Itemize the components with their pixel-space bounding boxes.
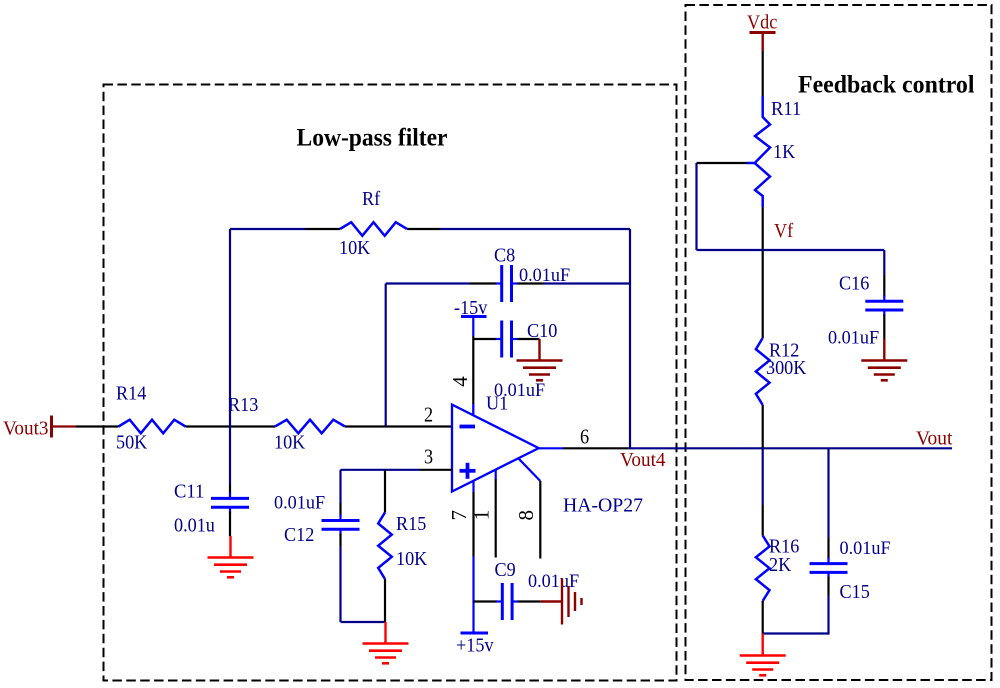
- wire C12 column upper: [339, 470, 341, 503]
- svg-text:0.01uF: 0.01uF: [828, 328, 879, 349]
- wire -15v stub: [472, 317, 474, 337]
- wire C8 right lead: [518, 282, 545, 284]
- svg-text:C9: C9: [495, 559, 516, 581]
- svg-text:R15: R15: [396, 513, 426, 535]
- wire R12 bottom lead: [762, 405, 764, 448]
- wire Vf horizontal: [697, 249, 885, 251]
- svg-text:C8: C8: [494, 245, 515, 267]
- wire pin7 lead: [472, 492, 474, 557]
- svg-text:Vdc: Vdc: [747, 12, 777, 34]
- resistor R15: [378, 512, 392, 579]
- resistor R14: [119, 420, 186, 434]
- capacitor C15: [810, 562, 848, 565]
- svg-text:Vf: Vf: [774, 220, 794, 242]
- wire R16 upper: [762, 448, 764, 505]
- wire R12 top lead: [762, 250, 764, 338]
- wire C16 ground stub: [883, 339, 885, 361]
- power Vdc bar: [750, 31, 776, 34]
- capacitor C10: [500, 321, 503, 358]
- svg-text:C11: C11: [174, 481, 204, 503]
- wire C15 upper: [827, 448, 829, 538]
- port Vout3 bar: [50, 416, 53, 438]
- svg-text:Low-pass filter: Low-pass filter: [297, 125, 448, 152]
- svg-text:Vout3: Vout3: [3, 418, 49, 440]
- wire C12 column lower: [339, 546, 341, 622]
- wire C8 left lead: [470, 282, 496, 284]
- wire C15 lower: [827, 596, 829, 635]
- capacitor C16: [865, 300, 903, 303]
- op-amp plus symbol: [460, 469, 476, 473]
- svg-text:3: 3: [424, 445, 433, 469]
- wire Rf right lead: [407, 228, 440, 230]
- wire C12 bottom lead: [339, 534, 341, 546]
- wire R16 top lead: [762, 505, 764, 536]
- wire C8 to node B: [544, 282, 630, 284]
- resistor Rf: [340, 222, 407, 236]
- wire C16 upper: [883, 250, 885, 275]
- svg-text:C15: C15: [840, 581, 870, 603]
- svg-text:Vout: Vout: [916, 428, 953, 450]
- wire C15 bottom lead: [827, 577, 829, 596]
- wire bottom horizontal to R15: [341, 621, 386, 623]
- svg-text:2K: 2K: [769, 554, 792, 576]
- svg-text:HA-OP27: HA-OP27: [563, 495, 643, 517]
- svg-text:2: 2: [424, 403, 433, 427]
- wire R15 ground stub: [384, 622, 386, 644]
- svg-text:R11: R11: [771, 98, 801, 120]
- op-amp U1 triangle: [452, 405, 539, 492]
- wire C12 top lead: [339, 503, 341, 516]
- capacitor C8: [500, 265, 503, 302]
- wire pin8 diagonal: [519, 459, 541, 481]
- wire R16 ground stub: [762, 634, 764, 656]
- svg-text:1: 1: [470, 510, 494, 521]
- wire pin7 to +15v: [472, 557, 474, 634]
- svg-text:-15v: -15v: [454, 297, 487, 319]
- wire R13 to pin2: [345, 425, 452, 427]
- wire Vdc to R11: [762, 51, 764, 96]
- wire node B vertical: [629, 229, 631, 448]
- power +15v bar: [461, 632, 489, 635]
- wire C11 ground stub: [229, 536, 231, 558]
- wire pin3 lead: [420, 469, 452, 471]
- wire bottom horizontal R16-C15: [763, 632, 829, 634]
- svg-text:50K: 50K: [116, 432, 148, 454]
- op-amp minus symbol: [460, 425, 476, 429]
- ground below R15: [363, 642, 409, 645]
- svg-text:0.01u: 0.01u: [174, 515, 215, 537]
- wire C9 ground stub: [541, 600, 561, 602]
- svg-text:8: 8: [514, 510, 538, 521]
- svg-text:R13: R13: [228, 394, 258, 416]
- svg-text:Vout4: Vout4: [620, 449, 666, 471]
- svg-text:10K: 10K: [396, 548, 428, 570]
- wire pin1 stub blue: [495, 470, 497, 479]
- feedback control section box: [686, 5, 992, 680]
- wire C10 ground stub: [538, 339, 540, 361]
- wire Rf to node B: [440, 228, 630, 230]
- ground below C11: [208, 556, 254, 559]
- svg-text:6: 6: [580, 425, 589, 449]
- wire Rf left lead: [305, 228, 340, 230]
- svg-text:U1: U1: [486, 393, 508, 415]
- wire C10 right lead: [518, 338, 540, 340]
- svg-text:C12: C12: [284, 524, 314, 546]
- wire R15 bottom lead: [384, 579, 386, 622]
- svg-text:C16: C16: [839, 273, 869, 295]
- ground below C10: [517, 359, 563, 362]
- wire node A vertical Rf-to-C11: [229, 229, 231, 485]
- wire pin4 blue stub: [472, 404, 474, 416]
- ground below R16: [740, 654, 786, 657]
- wire R15 top lead: [384, 470, 386, 513]
- wire node A to Rf: [230, 228, 305, 230]
- svg-text:7: 7: [447, 510, 471, 521]
- svg-text:0.01uF: 0.01uF: [274, 493, 325, 514]
- capacitor C12: [322, 519, 360, 522]
- wire C11 bottom lead: [229, 512, 231, 536]
- wire Vdc stub: [762, 33, 764, 52]
- low-pass filter section box: [104, 85, 677, 681]
- wire pin7 stub blue: [472, 481, 474, 493]
- wire R11 bottom lead: [762, 207, 764, 250]
- svg-text:+15v: +15v: [456, 635, 494, 657]
- wire C16 bottom lead: [883, 314, 885, 339]
- wire C15 top lead: [827, 538, 829, 559]
- wire R14 to node A: [186, 425, 276, 427]
- resistor R16: [756, 536, 770, 602]
- resistor R13: [275, 420, 345, 434]
- svg-text:10K: 10K: [339, 237, 371, 259]
- svg-text:1K: 1K: [773, 141, 796, 163]
- wire C11 top lead: [229, 485, 231, 494]
- svg-text:4: 4: [448, 376, 472, 387]
- wire C9 left lead: [474, 600, 498, 602]
- wire C9 right lead: [518, 600, 541, 602]
- wire pin1 lead: [495, 479, 497, 558]
- power -15v bar: [461, 315, 487, 318]
- wire pin4 lead: [472, 336, 474, 404]
- ground right of C9: [561, 579, 563, 625]
- svg-text:10K: 10K: [274, 432, 306, 454]
- wire R16 bottom lead: [762, 601, 764, 634]
- svg-text:300K: 300K: [766, 357, 807, 379]
- ground below C16: [861, 359, 907, 362]
- svg-text:0.01uF: 0.01uF: [840, 538, 891, 559]
- wire pin3 horizontal: [341, 469, 421, 471]
- capacitor C11: [211, 497, 249, 500]
- svg-text:R14: R14: [116, 383, 146, 405]
- resistor R12: [756, 338, 770, 405]
- wire output to Vout: [629, 447, 952, 449]
- wire pin6 stub: [539, 447, 563, 449]
- svg-text:0.01uF: 0.01uF: [528, 571, 579, 592]
- wire Vout3 to R14: [76, 425, 119, 427]
- wire R11 tap lead: [697, 162, 748, 164]
- wire Vout3 stub: [52, 425, 77, 427]
- wire C10 left lead: [473, 338, 496, 340]
- capacitor C9: [501, 583, 504, 620]
- resistor R11 with tap: [755, 96, 770, 207]
- wire C8 left horizontal: [386, 282, 470, 284]
- wire pin6 lead: [563, 447, 629, 449]
- wire pin8 lead: [539, 481, 541, 559]
- wire C16 top lead: [883, 275, 885, 297]
- wire C8 left vertical: [385, 284, 387, 427]
- svg-text:Rf: Rf: [362, 188, 381, 210]
- svg-text:Feedback control: Feedback control: [798, 72, 975, 99]
- wire tap vertical: [695, 163, 697, 250]
